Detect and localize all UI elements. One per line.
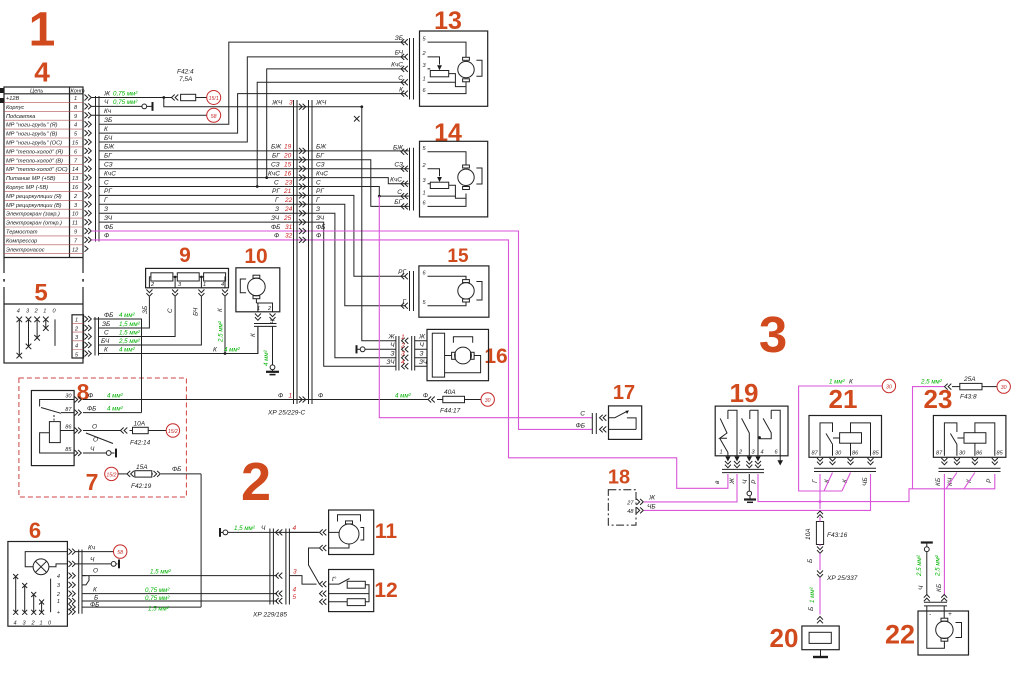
svg-text:1,5 мм²: 1,5 мм²	[119, 329, 141, 336]
svg-text:3: 3	[759, 306, 787, 363]
svg-text:19: 19	[730, 378, 759, 408]
terminal circle 15/2 (F42:14)	[166, 424, 179, 437]
svg-text:24: 24	[284, 206, 293, 213]
block 6 position matrix	[13, 574, 52, 626]
svg-text:С: С	[104, 329, 109, 336]
motor M13 with feedback pot	[428, 42, 483, 94]
table row separators (red)	[4, 102, 83, 253]
wire ФБ fuse to block 6	[200, 474, 202, 607]
svg-text:22: 22	[284, 197, 293, 204]
svg-text:БГ: БГ	[272, 153, 280, 160]
wire Кч block6 to 58	[76, 551, 114, 553]
svg-text:ФБ: ФБ	[271, 224, 280, 231]
block 5 pin chevrons	[85, 316, 92, 357]
svg-text:1: 1	[43, 309, 46, 315]
svg-text:18: 18	[608, 467, 630, 489]
terminal circle 30 (right)	[997, 380, 1010, 393]
svg-text:Ж: Ж	[729, 477, 736, 485]
ground of block 19 pin3	[744, 474, 756, 502]
actuator block 14	[390, 141, 488, 217]
svg-text:2,5 мм²: 2,5 мм²	[916, 554, 923, 577]
svg-text:11: 11	[72, 221, 78, 227]
svg-text:1 мм²: 1 мм²	[809, 586, 816, 603]
svg-text:Р: Р	[751, 479, 758, 484]
wire Ч block10 to ground	[266, 326, 279, 374]
svg-text:86: 86	[852, 451, 859, 457]
svg-text:Корпус МР (-5В): Корпус МР (-5В)	[6, 185, 48, 191]
svg-text:Цепь: Цепь	[30, 89, 43, 95]
svg-text:КчС: КчС	[268, 170, 280, 177]
svg-text:4: 4	[57, 574, 60, 580]
svg-text:1: 1	[74, 96, 77, 102]
svg-text:1,5 мм²: 1,5 мм²	[234, 525, 256, 532]
svg-text:Ф: Ф	[278, 392, 283, 399]
wire Ф from relay 30 to fuse F44:17	[83, 399, 428, 401]
svg-text:1: 1	[401, 334, 405, 341]
terminal circle 30 (left)	[882, 379, 895, 392]
svg-text:БЧ: БЧ	[101, 338, 110, 345]
svg-text:87: 87	[812, 451, 819, 457]
svg-text:ФБ: ФБ	[90, 601, 99, 608]
switch block 6	[8, 542, 68, 627]
svg-text:4: 4	[293, 525, 297, 532]
wire ЗБ to block 13 pin 5	[99, 42, 406, 124]
svg-text:КчС: КчС	[104, 170, 116, 177]
svg-text:О: О	[93, 436, 98, 443]
svg-text:1: 1	[75, 318, 78, 324]
svg-text:1: 1	[720, 450, 723, 456]
svg-text:БГ: БГ	[394, 199, 402, 206]
svg-text:ЗБ: ЗБ	[395, 35, 403, 42]
svg-text:ФБ: ФБ	[104, 224, 113, 231]
block 19 pin arrows and strip	[714, 456, 783, 485]
svg-text:С: С	[397, 189, 402, 196]
svg-text:С: С	[580, 410, 585, 417]
svg-text:86: 86	[65, 425, 72, 431]
svg-text:РГ: РГ	[398, 269, 406, 276]
wire КБ/battery feed from fuse F43:8 around relay 23	[913, 387, 975, 489]
svg-text:Г: Г	[275, 197, 279, 204]
svg-text:Корпус: Корпус	[6, 105, 24, 111]
svg-text:РГ: РГ	[272, 188, 280, 195]
svg-text:ФБ: ФБ	[104, 312, 113, 319]
svg-text:14: 14	[72, 167, 78, 173]
wire КчС to block 13 pin 3 (branch)	[267, 69, 406, 178]
wire ФБ row (pink)	[92, 231, 593, 429]
svg-text:СЗ: СЗ	[316, 162, 325, 169]
table row chevrons	[85, 95, 92, 252]
svg-text:Ф: Ф	[88, 392, 93, 399]
svg-text:Ф: Ф	[423, 392, 428, 399]
connector table X1 outer box	[0, 87, 85, 363]
svg-text:Б: Б	[807, 559, 814, 563]
svg-text:10: 10	[72, 212, 79, 218]
svg-text:5: 5	[34, 280, 47, 307]
wire КБ relay 23 pin87 down to block 22	[943, 474, 945, 595]
actuator block 13	[391, 31, 488, 106]
svg-text:7: 7	[86, 469, 99, 495]
wire ФБ from switch5 pin1 to relay 87	[83, 319, 142, 413]
svg-text:4: 4	[221, 282, 224, 288]
svg-text:ХР 229/185: ХР 229/185	[252, 612, 287, 619]
junction dot Ж/ЖЧ	[162, 96, 165, 99]
switch S1 (block 5) position matrix	[17, 309, 57, 359]
wire Кч to 58	[92, 114, 207, 116]
junction dot С/pink	[378, 195, 381, 198]
svg-text:10: 10	[244, 245, 267, 268]
svg-text:15/1: 15/1	[209, 96, 219, 102]
svg-text:ЗЧ: ЗЧ	[271, 215, 280, 222]
svg-text:12: 12	[374, 579, 397, 602]
svg-text:t°: t°	[332, 575, 337, 583]
bundle left labels	[268, 144, 282, 240]
svg-text:32: 32	[285, 233, 293, 240]
svg-text:87: 87	[65, 407, 72, 413]
connector XP 25/337	[808, 571, 858, 624]
svg-text:МР "ноги-грудь" (В): МР "ноги-грудь" (В)	[6, 132, 57, 138]
svg-text:21: 21	[829, 384, 858, 414]
svg-text:12: 12	[72, 247, 79, 253]
svg-text:Ч: Ч	[90, 557, 95, 564]
terminal circle 58	[207, 108, 221, 122]
block 6 pin chevrons	[69, 549, 76, 615]
svg-text:6: 6	[29, 518, 41, 543]
svg-text:15/2: 15/2	[168, 429, 178, 435]
svg-text:2: 2	[400, 342, 405, 349]
svg-text:4: 4	[17, 309, 20, 315]
jog joining positions 4-3	[82, 576, 89, 585]
svg-text:85: 85	[873, 451, 880, 457]
wire ЗЧ row	[99, 222, 396, 366]
svg-text:Конт: Конт	[71, 89, 85, 95]
resistor block 9	[146, 268, 229, 288]
svg-text:1: 1	[423, 76, 426, 82]
wire Ч block6 with terminal	[76, 557, 120, 569]
motor M14 with feedback pot	[428, 152, 483, 207]
svg-text:Г: Г	[316, 197, 320, 204]
svg-text:С: С	[316, 179, 321, 186]
wire Ч with terminal	[92, 99, 153, 111]
svg-text:5: 5	[293, 594, 297, 601]
block 9 output arrows	[146, 290, 228, 297]
svg-text:Г: Г	[402, 298, 406, 305]
svg-text:ЗБ: ЗБ	[104, 117, 112, 124]
svg-text:16: 16	[72, 185, 79, 191]
svg-text:СЗ: СЗ	[271, 162, 280, 169]
svg-text:87: 87	[936, 451, 943, 457]
wire О to block 12	[289, 576, 316, 585]
terminal circle 15/1	[207, 91, 221, 105]
bundle left red pin numbers	[283, 144, 293, 240]
svg-text:МР "тепло-холод" (ОС): МР "тепло-холод" (ОС)	[6, 167, 68, 173]
svg-text:2,5 мм²: 2,5 мм²	[218, 320, 225, 343]
electrovalve block 16	[386, 329, 488, 380]
pressure switch block 17	[576, 406, 642, 440]
svg-text:31: 31	[285, 224, 293, 231]
svg-text:Ж: Ж	[103, 90, 111, 97]
svg-text:9: 9	[74, 114, 77, 120]
svg-text:Питание МР (+5В): Питание МР (+5В)	[6, 176, 56, 182]
svg-text:1: 1	[29, 4, 56, 57]
terminal circle 15/2 (F42:19)	[105, 467, 118, 480]
svg-text:Г: Г	[104, 197, 108, 204]
svg-text:С: С	[167, 308, 174, 313]
svg-text:ЧБ: ЧБ	[647, 503, 656, 510]
svg-text:МР "ноги-грудь" (Я): МР "ноги-грудь" (Я)	[6, 123, 58, 129]
svg-text:30: 30	[959, 451, 966, 457]
svg-text:27: 27	[626, 500, 634, 506]
svg-text:1,5 мм²: 1,5 мм²	[150, 568, 172, 575]
wire РГ row	[99, 195, 406, 276]
svg-text:Р: Р	[986, 478, 993, 483]
svg-text:86: 86	[976, 451, 983, 457]
svg-text:БЖ: БЖ	[104, 144, 115, 151]
svg-text:БЖ: БЖ	[393, 145, 404, 152]
svg-text:СЗ: СЗ	[104, 162, 113, 169]
block 10 connector	[254, 314, 277, 327]
svg-text:Ч: Ч	[104, 99, 109, 106]
rotated wire labels	[142, 306, 277, 366]
svg-text:О: О	[92, 423, 97, 430]
svg-text:4: 4	[75, 344, 78, 350]
svg-text:ЖЧ: ЖЧ	[271, 100, 283, 107]
svg-text:10А: 10А	[805, 528, 812, 540]
svg-text:1: 1	[289, 392, 293, 399]
connector XP 229/185	[252, 525, 297, 618]
terminal circle 58 (block 6)	[114, 545, 127, 558]
block 6 bundle verticals	[79, 550, 82, 614]
svg-text:КчС: КчС	[390, 177, 402, 184]
svg-text:З: З	[391, 351, 395, 358]
svg-text:3: 3	[293, 568, 297, 575]
svg-text:1: 1	[423, 190, 426, 196]
svg-text:11: 11	[375, 520, 398, 543]
svg-text:ЗЧ: ЗЧ	[316, 215, 325, 222]
svg-text:РГ: РГ	[316, 188, 324, 195]
svg-text:16: 16	[284, 170, 292, 177]
svg-text:25: 25	[283, 215, 292, 222]
svg-text:ЗЧ: ЗЧ	[386, 359, 395, 366]
thermostat/resistor block 12	[320, 570, 374, 612]
svg-text:Кч: Кч	[88, 544, 96, 551]
wire Ч to block 11	[289, 531, 319, 533]
wire О relay 86 with fuse F42:14	[83, 421, 166, 447]
svg-text:4 мм²: 4 мм²	[119, 312, 136, 319]
svg-text:Ф: Ф	[316, 233, 321, 240]
lamp in block 6	[25, 552, 67, 575]
svg-text:23: 23	[924, 384, 953, 414]
wire БГ row	[99, 160, 409, 207]
svg-text:30: 30	[886, 385, 892, 391]
svg-text:4: 4	[14, 620, 17, 626]
pump motor block 10	[236, 268, 280, 312]
svg-text:48: 48	[627, 509, 634, 515]
dashed box of relay unit (block 7)	[19, 378, 187, 497]
svg-text:2,5 мм²: 2,5 мм²	[118, 338, 141, 345]
wire Ф row (pink)	[92, 240, 728, 488]
svg-text:30: 30	[485, 398, 491, 404]
svg-text:4 мм²: 4 мм²	[263, 349, 270, 366]
svg-text:КчС: КчС	[316, 170, 328, 177]
wire К to block 13 pin 6	[99, 94, 406, 134]
switch block 19	[715, 406, 788, 456]
relay block 8	[31, 391, 81, 466]
svg-text:МР "тепло-холод" (Я): МР "тепло-холод" (Я)	[6, 149, 63, 155]
block 16 internals	[432, 333, 480, 377]
svg-text:4 мм²: 4 мм²	[224, 346, 241, 353]
svg-text:Ч: Ч	[420, 342, 425, 349]
svg-text:ЗБ: ЗБ	[142, 306, 149, 314]
svg-text:МР "ноги-грудь" (ОС): МР "ноги-грудь" (ОС)	[6, 141, 62, 147]
wire С (pink) block14 pin1 to block 17	[379, 196, 592, 418]
wire К block6 to XP229/185	[82, 593, 277, 595]
svg-text:Электронасос: Электронасос	[6, 247, 45, 253]
svg-text:4 мм²: 4 мм²	[395, 392, 412, 399]
svg-text:0,75 мм²: 0,75 мм²	[113, 90, 138, 97]
wire Ж (pink) 18 to 19 pin2	[644, 474, 737, 502]
svg-text:15: 15	[284, 162, 292, 169]
bundle right labels	[316, 144, 328, 240]
svg-text:F42:19: F42:19	[131, 483, 152, 490]
table row texts	[6, 96, 79, 253]
svg-text:23: 23	[284, 179, 293, 186]
svg-text:21: 21	[283, 188, 292, 195]
terminal circle 30 (F44)	[481, 393, 494, 406]
relay 8 internals	[40, 400, 74, 454]
wire ФБ block6	[82, 606, 201, 608]
svg-text:Кч: Кч	[104, 108, 112, 115]
svg-text:Электрокран (закр.): Электрокран (закр.)	[6, 212, 60, 218]
svg-text:Б: Б	[808, 607, 815, 611]
svg-text:1: 1	[57, 599, 60, 605]
svg-text:С: С	[398, 75, 403, 82]
svg-text:30: 30	[835, 451, 842, 457]
svg-text:22: 22	[885, 620, 915, 650]
svg-text:в: в	[714, 480, 721, 484]
block 5 pin column	[72, 315, 84, 359]
motor M15	[428, 276, 483, 306]
svg-text:2: 2	[241, 452, 271, 512]
connector block 18	[608, 490, 656, 525]
svg-text:МР "тепло-холод" (В): МР "тепло-холод" (В)	[6, 158, 63, 164]
svg-text:Ч: Ч	[90, 446, 95, 453]
fuse F42:4 7,5A	[172, 69, 207, 101]
svg-text:БЧ: БЧ	[104, 135, 113, 142]
svg-text:ХР 25/229-С: ХР 25/229-С	[267, 410, 306, 417]
block 21 pin arrows and strip	[812, 458, 876, 486]
svg-text:4 мм²: 4 мм²	[107, 405, 124, 412]
svg-text:С: С	[104, 179, 109, 186]
wire ЗБ block9 pin2 to switch5 pin2	[99, 297, 149, 328]
wire Б block6 to XP229/185	[82, 600, 277, 602]
svg-text:4 мм²: 4 мм²	[107, 392, 124, 399]
svg-text:БЖ: БЖ	[271, 144, 282, 151]
svg-text:4: 4	[761, 450, 764, 456]
table bundle verticals	[96, 96, 100, 242]
wire К block10 pin1	[257, 326, 259, 353]
svg-text:Ф: Ф	[318, 392, 323, 399]
svg-text:2,5 мм²: 2,5 мм²	[935, 554, 942, 577]
svg-text:30: 30	[65, 394, 72, 400]
wire С block9 pin3 to switch5 pin3	[99, 297, 175, 337]
svg-text:3: 3	[401, 351, 405, 358]
svg-text:З: З	[316, 206, 320, 213]
svg-text:БЧ: БЧ	[193, 307, 200, 316]
svg-text:40А: 40А	[444, 389, 456, 396]
svg-text:МР рециркуляции (Я): МР рециркуляции (Я)	[6, 194, 62, 200]
wire К block9 pin4 to junction	[99, 297, 225, 354]
svg-text:Термостат: Термостат	[6, 230, 38, 236]
svg-text:Ф: Ф	[274, 233, 279, 240]
svg-text:4 мм²: 4 мм²	[119, 346, 136, 353]
svg-text:+12В: +12В	[6, 96, 19, 102]
block 5 bundle verticals	[95, 317, 99, 356]
terminal Ч of XP229/185	[220, 525, 319, 537]
svg-text:F42:14: F42:14	[130, 440, 151, 447]
svg-text:13: 13	[72, 176, 79, 182]
wire ЧБ (pink) 18 to 21 pin85	[644, 474, 871, 510]
svg-text:Ф: Ф	[104, 233, 109, 240]
svg-text:9: 9	[179, 244, 191, 267]
svg-text:85: 85	[65, 447, 72, 453]
wire С to block 13 pin 1 (branch)	[257, 82, 406, 186]
svg-text:ФБ: ФБ	[316, 224, 325, 231]
svg-text:20: 20	[770, 623, 799, 653]
svg-text:25А: 25А	[963, 376, 976, 383]
svg-text:Г: Г	[812, 479, 819, 483]
svg-text:ЖЧ: ЖЧ	[315, 100, 327, 107]
svg-text:58: 58	[211, 114, 217, 120]
svg-text:19: 19	[284, 144, 292, 151]
compressor clutch block 11	[320, 510, 374, 555]
svg-text:F43:16: F43:16	[827, 532, 848, 539]
svg-text:ЗЧ: ЗЧ	[419, 359, 428, 366]
terminal Ч of block 16	[357, 345, 396, 353]
terminal + ground of block 22 Ч wire	[916, 543, 943, 596]
wire Р (pink) 19 pin4 to relay 23	[758, 474, 995, 502]
svg-text:РГ: РГ	[104, 188, 112, 195]
svg-text:1: 1	[40, 620, 43, 626]
svg-text:Ж: Ж	[418, 334, 426, 341]
svg-text:Ж: Ж	[388, 334, 396, 341]
svg-text:17: 17	[613, 382, 635, 404]
svg-text:З: З	[420, 351, 424, 358]
svg-text:4: 4	[74, 123, 77, 129]
svg-text:Ж: Ж	[648, 495, 656, 502]
svg-text:85: 85	[997, 451, 1004, 457]
svg-text:1,5 мм²: 1,5 мм²	[119, 321, 141, 328]
wire О block6 to XP229/185	[82, 575, 277, 577]
svg-text:БГ: БГ	[104, 153, 112, 160]
svg-text:С: С	[274, 179, 279, 186]
svg-text:15: 15	[72, 141, 79, 147]
block 23 pin arrows and strip	[935, 458, 1001, 486]
svg-text:0,75 мм²: 0,75 мм²	[145, 587, 170, 594]
svg-text:ЗЧ: ЗЧ	[104, 215, 113, 222]
svg-text:58: 58	[117, 550, 123, 556]
svg-text:ФБ: ФБ	[87, 405, 96, 412]
block 5 wire labels	[101, 312, 241, 354]
control unit block 20	[802, 626, 839, 657]
svg-text:15А: 15А	[136, 464, 148, 471]
svg-text:ФБ: ФБ	[172, 466, 181, 473]
wire КчС row	[99, 178, 409, 184]
svg-text:2,5 мм²: 2,5 мм²	[920, 379, 943, 386]
svg-text:БГ: БГ	[316, 153, 324, 160]
svg-text:КБ: КБ	[936, 584, 943, 592]
svg-text:+: +	[948, 611, 952, 618]
svg-text:10А: 10А	[134, 421, 146, 428]
